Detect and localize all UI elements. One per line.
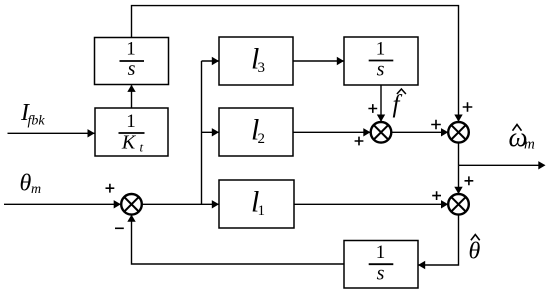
wire S3 output into summer S2	[391, 131, 447, 133]
summer S2 (omega junction)	[448, 122, 469, 143]
wire top feedback loop from integrator 1/s (U1) to summer S2	[132, 6, 459, 123]
integrator U4 box 1/s bottom	[344, 241, 418, 289]
plus sign at S3 top input	[368, 104, 377, 113]
svg-text:t: t	[140, 140, 144, 155]
label theta_m input	[20, 171, 42, 198]
svg-text:θ: θ	[20, 171, 32, 197]
label omega_m-hat output	[509, 122, 536, 153]
svg-text:θ: θ	[469, 239, 481, 265]
plus sign at S2 top input	[463, 102, 473, 112]
label f-hat	[393, 89, 406, 118]
block L3 box l3	[219, 37, 293, 85]
svg-text:1: 1	[258, 203, 266, 219]
plus sign at S4 left input	[432, 191, 441, 200]
wire omega_m output arrow	[459, 164, 545, 166]
wire l3 output to integrator U3	[293, 60, 344, 62]
wire l1 output into summer S4	[294, 203, 448, 205]
minus sign at S1 bottom input	[115, 227, 124, 229]
wire branch arrow into l2	[202, 131, 219, 133]
wire S1 output to l1 with tee up to l3/l2	[142, 203, 219, 205]
wire vertical distribution line	[201, 61, 203, 204]
svg-text:m: m	[524, 137, 535, 153]
svg-text:s: s	[377, 59, 385, 81]
label Ifbk input	[20, 100, 45, 129]
plus sign at S1 input	[106, 184, 115, 193]
svg-text:1: 1	[126, 39, 136, 60]
svg-text:s: s	[377, 263, 385, 285]
svg-text:1: 1	[376, 242, 386, 263]
svg-text:1: 1	[376, 39, 386, 60]
svg-text:fbk: fbk	[28, 114, 46, 129]
wire Ifbk input arrow into U2	[8, 132, 96, 134]
label theta-hat	[469, 235, 481, 265]
svg-text:3: 3	[258, 60, 266, 76]
block U2 box 1/Kt	[95, 108, 168, 156]
summer S4 (theta junction)	[448, 194, 469, 215]
summer S1 (error junction)	[121, 194, 142, 215]
plus sign at S2 left input	[431, 120, 441, 130]
svg-text:m: m	[31, 182, 41, 197]
integrator U3 box 1/s top-right	[344, 37, 418, 85]
summer S3	[371, 122, 392, 143]
plus sign at S4 top input	[465, 176, 474, 185]
wire S4 output down and left into integrator U4	[418, 215, 458, 265]
wire branch arrow into l3	[202, 60, 219, 62]
svg-text:2: 2	[258, 131, 266, 147]
block L2 box l2	[219, 108, 293, 156]
wire l2 output into summer S3	[293, 131, 370, 133]
wire U3 output down into summer S3	[380, 85, 382, 122]
wire U2 to U1 vertical arrow	[131, 85, 133, 108]
svg-text:1: 1	[126, 111, 136, 132]
wire down into S4	[458, 165, 460, 194]
svg-text:s: s	[128, 58, 136, 80]
integrator U1 box 1/s top-left	[95, 38, 169, 85]
wire S2 output down with tee to omega output and summer S4	[458, 143, 460, 166]
svg-text:K: K	[121, 132, 137, 154]
wire U4 output left and up into summer S1 (negative)	[132, 215, 345, 264]
wire theta_m input arrow into summer S1	[4, 203, 120, 205]
plus sign at S3 left input	[355, 137, 364, 146]
block L1 box l1	[219, 180, 294, 228]
